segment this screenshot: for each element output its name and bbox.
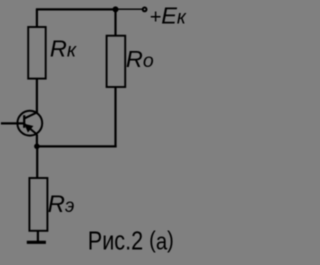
resistor Rэ bbox=[29, 178, 47, 231]
transistor emitter arrow (PNP, points toward base) bbox=[24, 124, 33, 133]
transistor base bar bbox=[23, 115, 25, 128]
svg-text:Rэ: Rэ bbox=[48, 191, 75, 218]
transistor emitter diagonal bbox=[24, 124, 37, 135]
wire emitter lead bbox=[36, 135, 38, 148]
svg-text:Ro: Ro bbox=[126, 46, 154, 72]
wire Ro top lead bbox=[114, 9, 116, 36]
wire Rэ top lead bbox=[36, 147, 38, 179]
transistor Q1 circle bbox=[17, 111, 42, 136]
resistor Rк bbox=[28, 27, 46, 79]
ground bbox=[27, 241, 46, 244]
node emitter junction bbox=[34, 144, 40, 150]
terminal +Ek circle bbox=[143, 7, 147, 11]
wire ground stub bbox=[37, 231, 39, 242]
resistor Ro bbox=[107, 36, 126, 87]
transistor collector diagonal bbox=[24, 112, 37, 118]
wire Ro bottom lead bbox=[114, 87, 116, 148]
wire base lead bbox=[1, 122, 24, 124]
wire top rail bbox=[36, 8, 116, 10]
wire Rk top lead bbox=[36, 9, 38, 27]
wire collector lead bbox=[36, 79, 38, 114]
svg-text:Рис.2 (а): Рис.2 (а) bbox=[88, 226, 174, 255]
wire emitter to Ro branch bbox=[37, 145, 117, 147]
wire rail to terminal bbox=[116, 8, 143, 10]
node top rail junction bbox=[113, 6, 119, 12]
svg-text:Rк: Rк bbox=[50, 35, 77, 61]
